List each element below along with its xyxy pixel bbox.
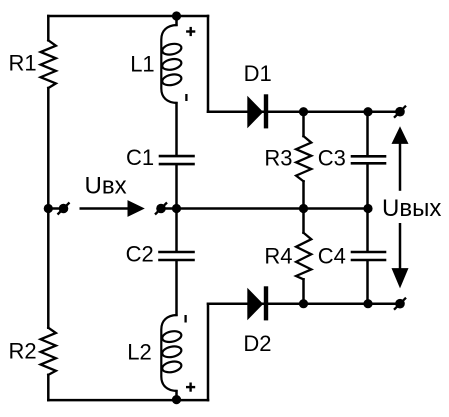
wire R3 bottom stub: [302, 181, 305, 208]
inductor L2: [161, 315, 182, 391]
wire node to C2: [175, 209, 178, 251]
node C4 bottom junction: [363, 299, 372, 308]
svg-text:R1: R1: [9, 51, 37, 76]
terminal output bottom: [394, 298, 406, 310]
node center mid junction: [172, 204, 181, 213]
wire left rail middle: [47, 88, 50, 328]
wire D2 rail: [208, 302, 396, 305]
svg-text:C4: C4: [318, 243, 346, 268]
minus polarity L1: [185, 94, 187, 101]
resistor R4: [296, 233, 311, 280]
svg-text:C1: C1: [126, 145, 154, 170]
input arrow Uvx: [80, 200, 145, 217]
wire right column top: [207, 16, 210, 112]
resistor R1: [41, 40, 56, 88]
node bottom junction: [172, 395, 181, 404]
wire left rail lower: [47, 375, 50, 400]
wire input right stub: [166, 207, 177, 210]
capacitor C4: [352, 252, 385, 260]
wire bottom rail: [48, 399, 208, 402]
wire R3 top stub: [302, 112, 305, 136]
svg-text:Uвых: Uвых: [382, 195, 441, 222]
terminal input left: [58, 203, 70, 215]
capacitor C3: [352, 156, 385, 163]
svg-text:C3: C3: [318, 146, 346, 171]
wire input left stub: [48, 207, 58, 210]
svg-text:D1: D1: [244, 61, 272, 86]
diode D2: [247, 286, 268, 320]
node left mid junction: [44, 204, 53, 213]
svg-text:R4: R4: [264, 243, 292, 268]
wire R4 top stub: [302, 209, 305, 233]
node top junction: [172, 11, 181, 20]
plus polarity L2: [186, 383, 195, 392]
svg-text:L2: L2: [127, 340, 151, 365]
resistor R3: [296, 136, 311, 181]
wire C4 bottom stub: [366, 261, 369, 303]
wire C4 top stub: [366, 209, 369, 251]
inductor L1: [161, 25, 182, 103]
capacitor C2: [160, 252, 194, 260]
svg-text:C2: C2: [126, 242, 154, 267]
svg-text:R3: R3: [264, 146, 292, 171]
wire C1 to node: [175, 165, 178, 208]
svg-text:Uвх: Uвх: [85, 173, 127, 200]
wire R4 bottom stub: [302, 279, 305, 303]
svg-text:L1: L1: [130, 51, 154, 76]
svg-text:R2: R2: [9, 339, 37, 364]
wire D1 rail: [208, 110, 396, 113]
wire C3 bottom stub: [366, 165, 369, 209]
wire C2 to L2: [175, 261, 178, 315]
capacitor C1: [160, 156, 194, 164]
svg-text:D2: D2: [243, 331, 271, 356]
minus polarity L2: [184, 315, 186, 323]
plus polarity L1: [186, 27, 195, 36]
wire middle rail: [177, 207, 369, 210]
wire top rail: [48, 15, 208, 18]
node R3 top junction: [299, 107, 308, 116]
terminal input right: [155, 203, 167, 215]
wire L1 top stem: [175, 16, 178, 25]
resistor R2: [41, 328, 56, 375]
output arrow Uvyh double-headed: [392, 126, 409, 288]
node R4 bottom junction: [299, 299, 308, 308]
wire right column bottom: [207, 304, 210, 400]
wire C3 top stub: [366, 112, 369, 155]
node R3 bottom junction: [299, 204, 308, 213]
wire L1 to C1: [175, 103, 178, 155]
node C3 top junction: [363, 107, 372, 116]
wire left rail upper: [47, 16, 50, 40]
diode D1: [247, 94, 268, 128]
wire L2 bottom stem: [175, 391, 178, 400]
node C3 bottom junction: [363, 204, 372, 213]
terminal output top: [394, 106, 406, 118]
